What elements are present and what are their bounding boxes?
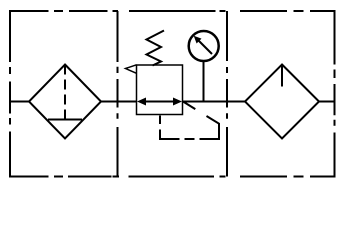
regulator R1 spring	[147, 31, 165, 66]
enclosure top border (dash-dot)	[10, 10, 335, 12]
wire: filter to regulator	[101, 101, 137, 103]
regulator R1 body	[137, 65, 183, 115]
gauge G1 stem	[203, 60, 205, 102]
regulator R1 flow path arrow	[137, 98, 182, 106]
lubricator L1 drip line	[281, 65, 283, 87]
gauge G1 dial	[189, 31, 219, 61]
lubricator L1 diamond	[245, 65, 319, 139]
regulator R1 pilot line (dashed)	[160, 102, 219, 140]
enclosure bottom border (dash-dot)	[10, 176, 335, 178]
divider 2 (dash-dot vertical)	[226, 11, 228, 177]
wire: outlet flow line	[319, 101, 335, 103]
wire: inlet flow line	[10, 101, 30, 103]
filter F1 separator baffle	[48, 119, 82, 121]
enclosure left border (dash-dot)	[9, 10, 11, 178]
regulator R1 adjustment arrow	[126, 65, 137, 74]
divider 1 (dash-dot vertical)	[117, 11, 119, 177]
wire: regulator to lubricator	[183, 101, 246, 103]
filter F1 diamond	[29, 65, 101, 139]
enclosure right border (dash-dot)	[334, 10, 336, 178]
filter F1 element (dashed centre line)	[64, 65, 66, 120]
gauge G1 needle	[194, 36, 212, 54]
